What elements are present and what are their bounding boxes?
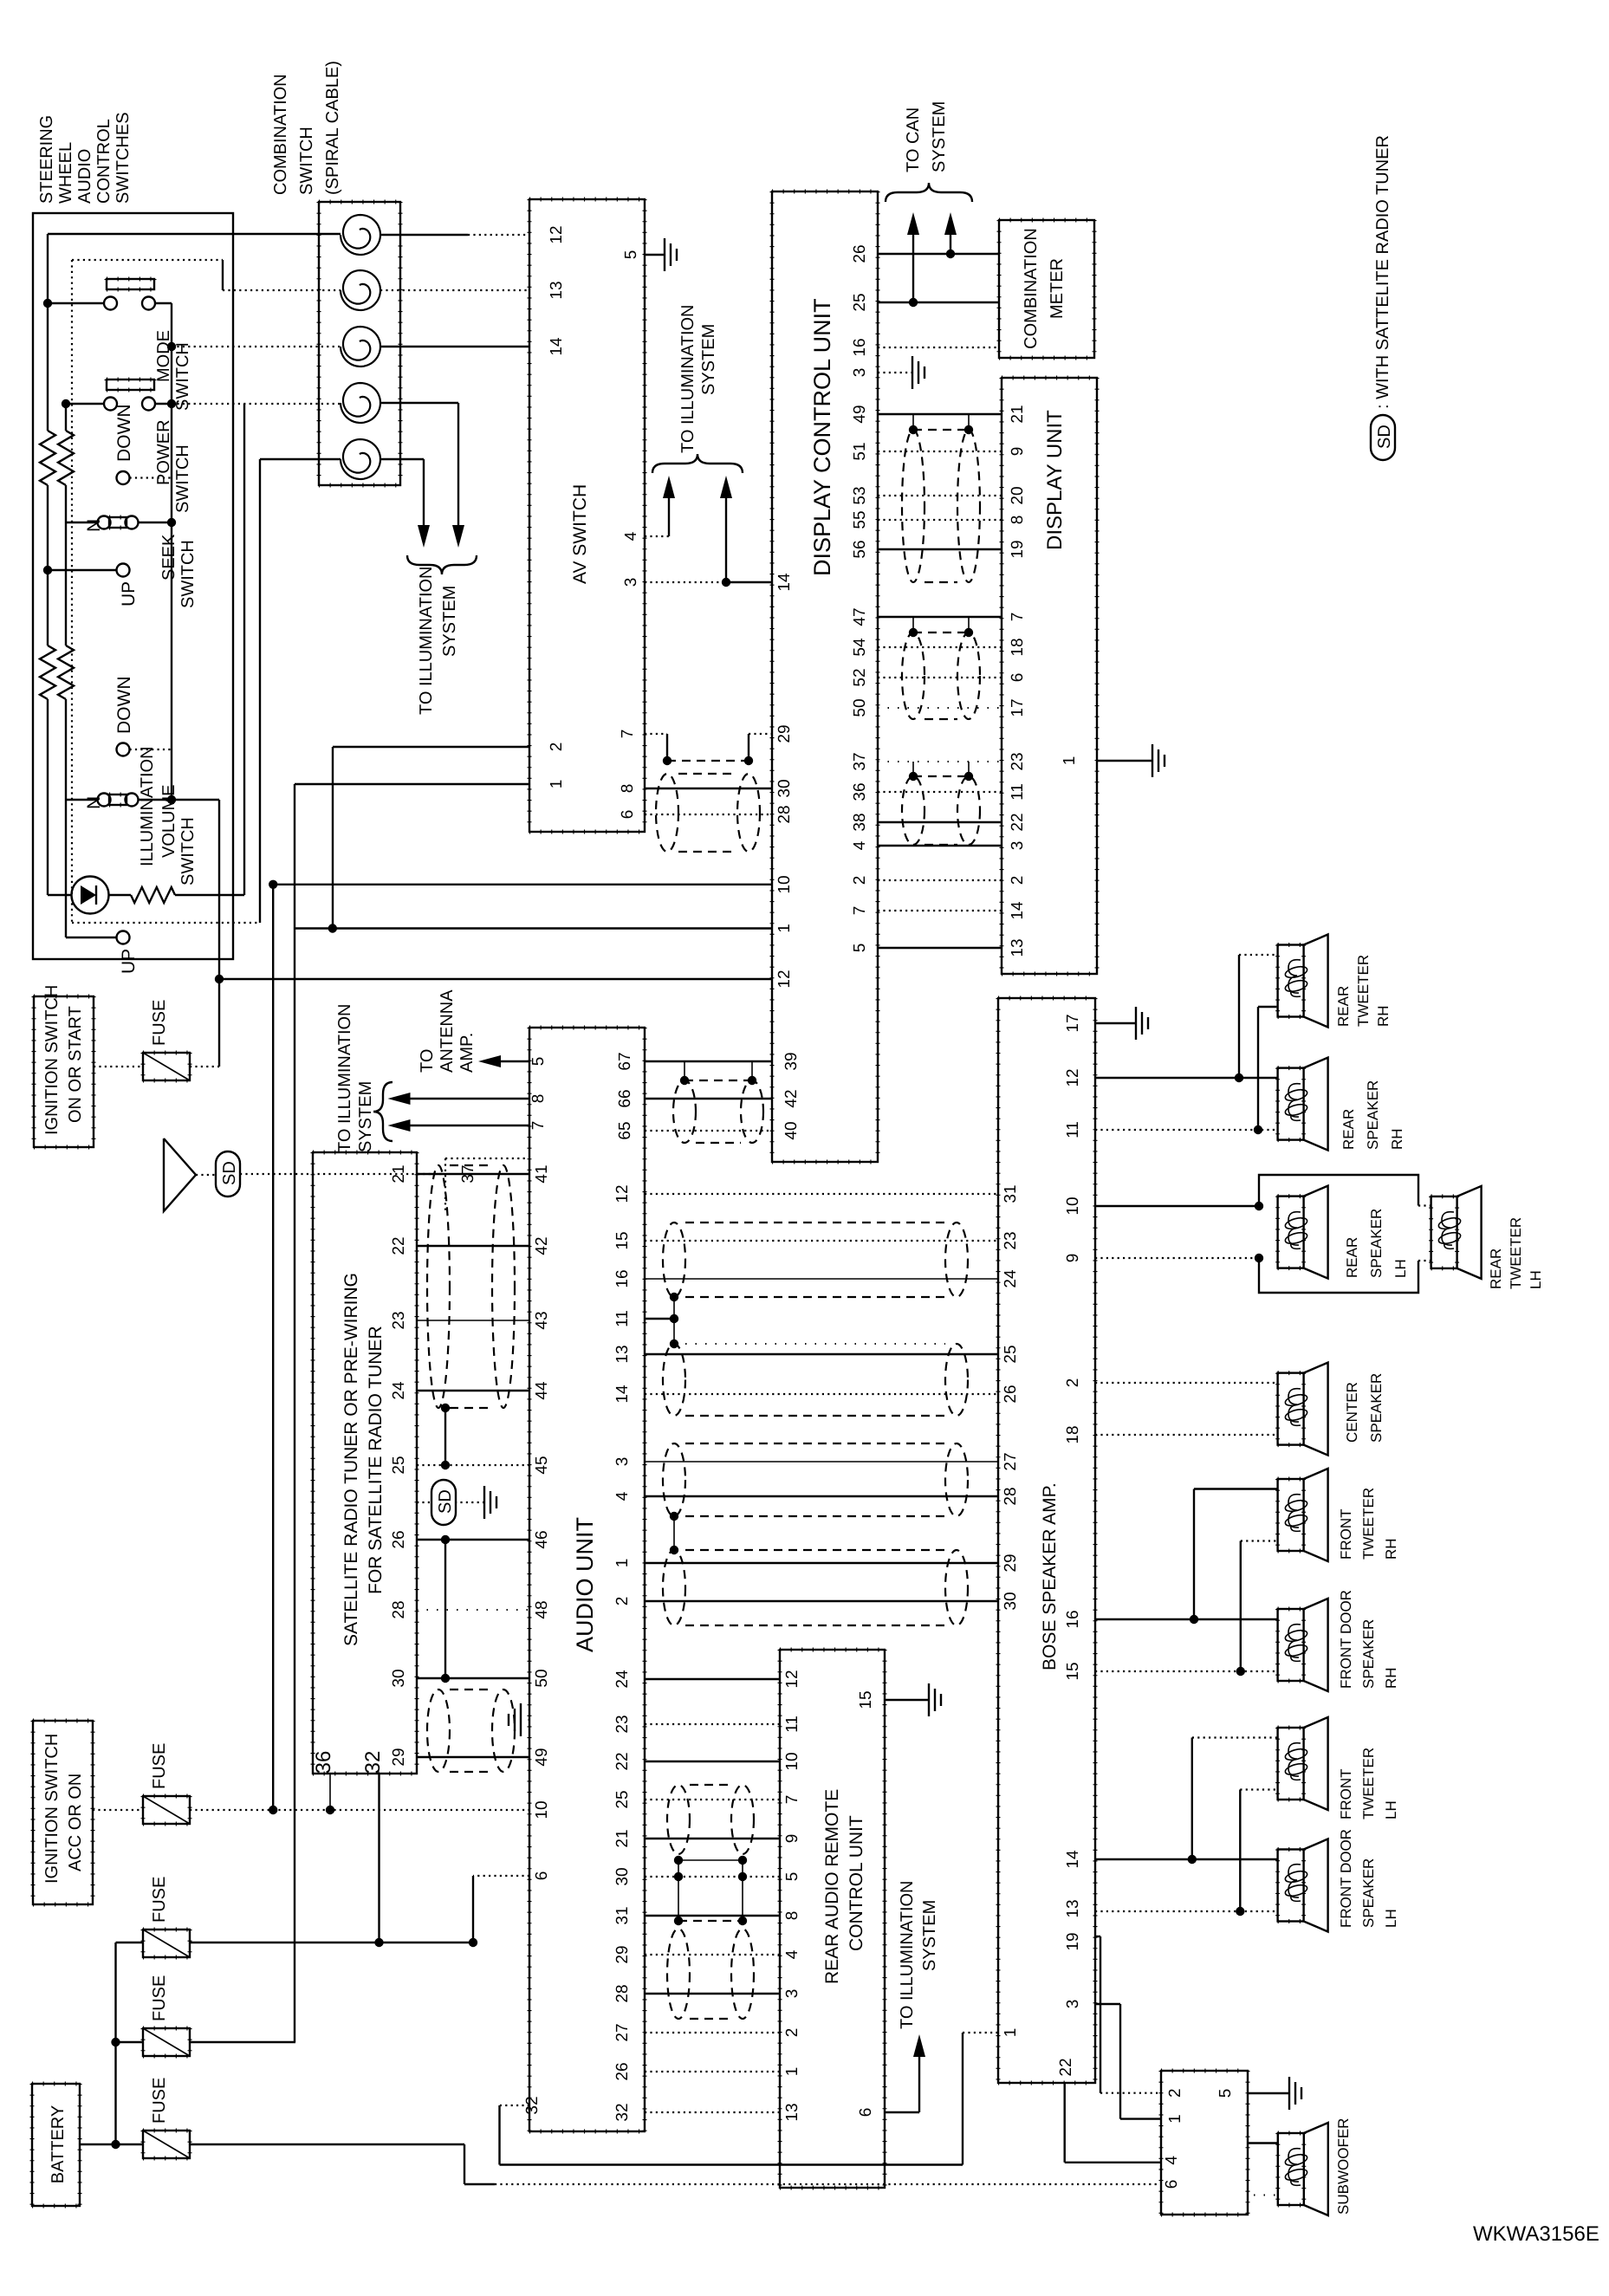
svg-text:15: 15: [857, 1690, 875, 1709]
svg-text:SPEAKER: SPEAKER: [1368, 1373, 1385, 1443]
svg-text:FUSE: FUSE: [150, 1000, 169, 1046]
svg-text:2: 2: [548, 743, 566, 752]
svg-text:SPEAKER: SPEAKER: [1365, 1080, 1381, 1150]
svg-text:6: 6: [533, 1871, 551, 1881]
svg-text:51: 51: [851, 442, 869, 460]
svg-text:4: 4: [851, 840, 869, 850]
svg-text:VOLUME: VOLUME: [159, 785, 178, 858]
svg-text:2: 2: [1166, 2088, 1184, 2098]
svg-text:COMBINATION: COMBINATION: [271, 74, 290, 195]
svg-text:SPEAKER: SPEAKER: [1360, 1619, 1377, 1689]
svg-text:22: 22: [613, 1752, 632, 1770]
svg-text:AUDIO UNIT: AUDIO UNIT: [572, 1517, 598, 1652]
svg-text:21: 21: [1009, 405, 1027, 423]
svg-text:17: 17: [1009, 698, 1027, 717]
svg-text:46: 46: [533, 1530, 551, 1548]
svg-text:(SPIRAL CABLE): (SPIRAL CABLE): [323, 61, 342, 195]
svg-text:1: 1: [613, 1559, 632, 1568]
svg-text:29: 29: [1002, 1553, 1020, 1572]
svg-text:3: 3: [613, 1457, 632, 1467]
svg-text:2: 2: [1064, 1378, 1082, 1388]
svg-text:32: 32: [613, 2103, 632, 2121]
svg-text:45: 45: [533, 1456, 551, 1474]
svg-text:1: 1: [1166, 2114, 1184, 2124]
svg-text:15: 15: [613, 1231, 632, 1249]
svg-text:17: 17: [1064, 1014, 1082, 1032]
svg-text:23: 23: [1009, 752, 1027, 770]
svg-text:2: 2: [851, 876, 869, 885]
svg-text:SWITCH: SWITCH: [173, 444, 192, 513]
svg-text:3: 3: [1064, 2000, 1082, 2009]
svg-text:1: 1: [783, 2067, 801, 2077]
svg-text:9: 9: [783, 1834, 801, 1844]
svg-text:22: 22: [390, 1236, 408, 1255]
svg-text:TO ILLUMINATION: TO ILLUMINATION: [678, 304, 697, 453]
svg-text:42: 42: [782, 1089, 801, 1107]
svg-text:SPEAKER: SPEAKER: [1360, 1858, 1377, 1928]
svg-text:39: 39: [782, 1052, 801, 1070]
svg-text:FRONT: FRONT: [1338, 1508, 1354, 1560]
svg-text:42: 42: [533, 1236, 551, 1255]
svg-text:48: 48: [533, 1600, 551, 1618]
svg-text:BATTERY: BATTERY: [49, 2105, 68, 2183]
svg-text:10: 10: [1064, 1197, 1082, 1215]
svg-text:23: 23: [1002, 1231, 1020, 1249]
svg-text:TWEETER: TWEETER: [1355, 955, 1372, 1027]
svg-text:RH: RH: [1383, 1667, 1399, 1689]
svg-text:18: 18: [1009, 638, 1027, 656]
svg-text:SYSTEM: SYSTEM: [440, 586, 459, 657]
svg-text:5: 5: [529, 1057, 548, 1067]
svg-text:5: 5: [622, 250, 640, 260]
svg-text:16: 16: [613, 1269, 632, 1287]
svg-text:40: 40: [782, 1121, 801, 1139]
svg-text:12: 12: [548, 225, 566, 243]
svg-text:44: 44: [533, 1381, 551, 1400]
svg-text:METER: METER: [1048, 258, 1067, 319]
svg-text:22: 22: [1009, 813, 1027, 831]
svg-text:11: 11: [1064, 1121, 1082, 1138]
svg-text:3: 3: [1009, 841, 1027, 851]
svg-text:SWITCH: SWITCH: [178, 817, 198, 885]
svg-text:DISPLAY UNIT: DISPLAY UNIT: [1043, 410, 1067, 550]
svg-text:30: 30: [390, 1669, 408, 1687]
svg-text:27: 27: [613, 2023, 632, 2041]
svg-text:7: 7: [529, 1121, 548, 1131]
svg-text:7: 7: [619, 730, 637, 739]
svg-text:SYSTEM: SYSTEM: [930, 101, 949, 172]
svg-text:: WITH SATTELITE RADIO TUNER: : WITH SATTELITE RADIO TUNER: [1373, 135, 1392, 409]
svg-text:8: 8: [783, 1911, 801, 1921]
svg-text:56: 56: [851, 540, 869, 558]
svg-text:54: 54: [851, 638, 869, 657]
svg-text:ON OR START: ON OR START: [66, 1006, 85, 1123]
svg-text:31: 31: [1002, 1184, 1020, 1203]
svg-text:3: 3: [851, 368, 869, 378]
svg-text:SYSTEM: SYSTEM: [920, 1900, 939, 1971]
svg-text:11: 11: [783, 1716, 801, 1733]
svg-text:UP: UP: [119, 581, 139, 606]
svg-text:3: 3: [783, 1989, 801, 1999]
svg-text:SYSTEM: SYSTEM: [356, 1081, 375, 1152]
svg-text:26: 26: [851, 244, 869, 263]
svg-text:RH: RH: [1375, 1005, 1392, 1027]
svg-text:FRONT: FRONT: [1338, 1768, 1354, 1819]
svg-text:10: 10: [533, 1800, 551, 1819]
svg-text:5: 5: [1216, 2089, 1235, 2098]
svg-text:SWITCH: SWITCH: [178, 540, 198, 608]
svg-text:BOSE SPEAKER AMP.: BOSE SPEAKER AMP.: [1040, 1482, 1060, 1670]
svg-text:12: 12: [775, 970, 794, 988]
svg-text:52: 52: [851, 668, 869, 686]
svg-text:UP: UP: [119, 949, 139, 974]
svg-text:IGNITION SWITCH: IGNITION SWITCH: [42, 1734, 62, 1884]
svg-text:10: 10: [775, 875, 794, 893]
svg-text:41: 41: [533, 1164, 551, 1183]
svg-text:FOR SATELLITE RADIO TUNER: FOR SATELLITE RADIO TUNER: [366, 1326, 386, 1594]
svg-text:4: 4: [1163, 2156, 1181, 2165]
svg-text:SPEAKER: SPEAKER: [1368, 1209, 1385, 1278]
svg-text:2: 2: [613, 1597, 632, 1606]
svg-text:TO: TO: [418, 1049, 437, 1073]
svg-text:9: 9: [1064, 1254, 1082, 1263]
svg-text:SD: SD: [220, 1161, 239, 1185]
svg-text:24: 24: [1002, 1269, 1020, 1288]
svg-text:21: 21: [613, 1829, 632, 1847]
svg-text:24: 24: [390, 1381, 408, 1400]
svg-text:6: 6: [857, 2108, 875, 2118]
svg-text:28: 28: [613, 1984, 632, 2002]
svg-text:N: N: [84, 796, 104, 809]
svg-text:14: 14: [613, 1385, 632, 1404]
svg-text:8: 8: [1009, 516, 1027, 525]
svg-text:SD: SD: [436, 1489, 455, 1514]
svg-text:TO CAN: TO CAN: [904, 107, 923, 172]
svg-text:29: 29: [775, 724, 794, 743]
svg-text:1: 1: [548, 780, 566, 789]
svg-text:4: 4: [622, 531, 640, 541]
svg-text:STEERING: STEERING: [37, 115, 56, 204]
svg-text:4: 4: [613, 1491, 632, 1501]
svg-text:8: 8: [529, 1094, 548, 1104]
svg-text:53: 53: [851, 486, 869, 504]
svg-text:1: 1: [1061, 756, 1079, 766]
svg-text:TO ILLUMINATION: TO ILLUMINATION: [898, 1880, 917, 2029]
svg-text:WHEEL: WHEEL: [56, 142, 75, 204]
svg-text:25: 25: [1002, 1345, 1020, 1363]
svg-text:13: 13: [783, 2103, 801, 2121]
svg-text:23: 23: [390, 1311, 408, 1329]
svg-text:28: 28: [775, 805, 794, 823]
svg-text:5: 5: [783, 1872, 801, 1882]
svg-text:47: 47: [851, 607, 869, 626]
svg-text:WKWA3156E: WKWA3156E: [1473, 2222, 1599, 2246]
svg-text:FRONT DOOR: FRONT DOOR: [1338, 1829, 1354, 1928]
svg-text:36: 36: [851, 782, 869, 801]
svg-text:FRONT DOOR: FRONT DOOR: [1338, 1590, 1354, 1689]
svg-text:11: 11: [613, 1310, 632, 1327]
svg-text:28: 28: [1002, 1487, 1020, 1505]
svg-text:1: 1: [1002, 2028, 1020, 2038]
svg-text:21: 21: [390, 1164, 408, 1183]
svg-text:29: 29: [390, 1748, 408, 1766]
svg-text:14: 14: [1064, 1850, 1082, 1869]
svg-text:20: 20: [1009, 486, 1027, 504]
svg-text:AUDIO: AUDIO: [75, 149, 94, 204]
svg-text:29: 29: [613, 1945, 632, 1963]
svg-text:65: 65: [616, 1121, 634, 1139]
svg-text:LH: LH: [1383, 1800, 1399, 1819]
svg-text:50: 50: [851, 698, 869, 717]
svg-text:38: 38: [851, 813, 869, 831]
svg-text:66: 66: [616, 1089, 634, 1107]
svg-text:16: 16: [851, 338, 869, 356]
svg-text:26: 26: [390, 1530, 408, 1548]
svg-text:6: 6: [1163, 2180, 1181, 2189]
svg-text:13: 13: [1064, 1899, 1082, 1917]
svg-text:SD: SD: [1375, 425, 1394, 449]
svg-text:18: 18: [1064, 1425, 1082, 1443]
svg-text:12: 12: [783, 1670, 801, 1688]
svg-text:12: 12: [613, 1184, 632, 1203]
svg-text:23: 23: [613, 1715, 632, 1733]
svg-text:FUSE: FUSE: [150, 1743, 169, 1789]
svg-text:30: 30: [613, 1867, 632, 1885]
svg-text:2: 2: [1009, 876, 1027, 885]
svg-text:13: 13: [548, 281, 566, 299]
svg-text:14: 14: [1009, 901, 1027, 920]
svg-text:7: 7: [1009, 613, 1027, 622]
svg-text:25: 25: [851, 293, 869, 311]
svg-text:11: 11: [1009, 783, 1027, 801]
svg-text:TWEETER: TWEETER: [1360, 1748, 1377, 1819]
svg-text:LH: LH: [1383, 1909, 1399, 1928]
svg-text:1: 1: [775, 924, 794, 933]
svg-text:16: 16: [1064, 1610, 1082, 1628]
svg-text:TO ILLUMINATION: TO ILLUMINATION: [417, 566, 436, 715]
svg-text:REAR: REAR: [1344, 1237, 1360, 1278]
svg-text:REAR: REAR: [1335, 986, 1352, 1027]
svg-text:AV SWITCH: AV SWITCH: [570, 484, 590, 584]
svg-text:36: 36: [312, 1751, 335, 1774]
svg-text:28: 28: [390, 1600, 408, 1618]
svg-text:10: 10: [783, 1752, 801, 1770]
svg-text:14: 14: [775, 573, 794, 592]
svg-text:30: 30: [1002, 1592, 1020, 1610]
svg-text:13: 13: [613, 1345, 632, 1363]
svg-text:19: 19: [1009, 540, 1027, 558]
svg-text:27: 27: [1002, 1452, 1020, 1470]
svg-text:SEEK: SEEK: [159, 534, 178, 580]
svg-text:POWER: POWER: [154, 419, 173, 485]
svg-text:25: 25: [390, 1456, 408, 1474]
svg-text:25: 25: [613, 1790, 632, 1808]
svg-text:49: 49: [851, 405, 869, 423]
svg-text:REAR: REAR: [1488, 1249, 1504, 1289]
svg-text:13: 13: [1009, 938, 1027, 957]
svg-text:50: 50: [533, 1669, 551, 1687]
svg-text:ANTENNA: ANTENNA: [438, 989, 457, 1073]
svg-text:26: 26: [613, 2062, 632, 2080]
svg-text:ACC OR ON: ACC OR ON: [66, 1774, 85, 1871]
svg-text:TO ILLUMINATION: TO ILLUMINATION: [335, 1003, 354, 1152]
svg-text:SUBWOOFER: SUBWOOFER: [1335, 2118, 1352, 2215]
svg-text:DOWN: DOWN: [114, 405, 134, 463]
svg-text:22: 22: [1057, 2058, 1075, 2076]
svg-text:IGNITION SWITCH: IGNITION SWITCH: [42, 985, 62, 1135]
svg-text:32: 32: [523, 2096, 542, 2114]
svg-text:DISPLAY CONTROL UNIT: DISPLAY CONTROL UNIT: [809, 298, 835, 576]
svg-text:CENTER: CENTER: [1344, 1382, 1360, 1443]
svg-text:4: 4: [783, 1949, 801, 1959]
svg-text:LH: LH: [1392, 1259, 1409, 1278]
svg-text:LH: LH: [1528, 1270, 1544, 1289]
svg-text:8: 8: [619, 784, 637, 794]
svg-text:7: 7: [783, 1795, 801, 1805]
svg-text:SWITCH: SWITCH: [297, 126, 316, 195]
svg-text:37: 37: [851, 752, 869, 770]
svg-text:3: 3: [622, 578, 640, 587]
svg-text:TWEETER: TWEETER: [1508, 1217, 1524, 1289]
svg-text:12: 12: [1064, 1068, 1082, 1086]
svg-text:15: 15: [1064, 1662, 1082, 1680]
svg-text:SWITCHES: SWITCHES: [114, 112, 133, 204]
svg-text:55: 55: [851, 510, 869, 529]
svg-text:32: 32: [361, 1751, 385, 1774]
svg-text:7: 7: [851, 906, 869, 916]
svg-text:REAR AUDIO REMOTE: REAR AUDIO REMOTE: [822, 1789, 842, 1984]
svg-text:FUSE: FUSE: [150, 1975, 169, 2021]
svg-text:SYSTEM: SYSTEM: [699, 324, 718, 395]
svg-text:RH: RH: [1383, 1538, 1399, 1560]
svg-text:30: 30: [775, 779, 794, 797]
svg-text:CONTROL UNIT: CONTROL UNIT: [847, 1815, 866, 1951]
svg-text:MODE: MODE: [154, 330, 173, 382]
svg-text:SATELLITE RADIO TUNER OR PRE-W: SATELLITE RADIO TUNER OR PRE-WIRING: [341, 1273, 361, 1646]
svg-text:31: 31: [613, 1906, 632, 1924]
svg-text:9: 9: [1009, 447, 1027, 457]
svg-text:19: 19: [1064, 1932, 1082, 1950]
svg-text:RH: RH: [1389, 1128, 1405, 1150]
svg-text:67: 67: [616, 1052, 634, 1070]
svg-text:FUSE: FUSE: [150, 2078, 169, 2124]
svg-text:COMBINATION: COMBINATION: [1022, 228, 1041, 349]
svg-text:14: 14: [548, 337, 566, 356]
svg-text:CONTROL: CONTROL: [94, 119, 114, 204]
svg-text:AMP.: AMP.: [457, 1033, 477, 1073]
svg-text:ILLUMINATION: ILLUMINATION: [138, 746, 157, 866]
svg-text:43: 43: [533, 1311, 551, 1329]
svg-text:49: 49: [533, 1748, 551, 1766]
svg-text:26: 26: [1002, 1385, 1020, 1403]
svg-text:SWITCH: SWITCH: [173, 342, 192, 411]
svg-text:TWEETER: TWEETER: [1360, 1488, 1377, 1560]
svg-text:2: 2: [783, 2028, 801, 2038]
svg-text:5: 5: [851, 944, 869, 953]
svg-text:REAR: REAR: [1340, 1109, 1357, 1150]
svg-text:6: 6: [619, 810, 637, 820]
svg-text:FUSE: FUSE: [150, 1877, 169, 1923]
svg-text:6: 6: [1009, 673, 1027, 683]
svg-text:24: 24: [613, 1670, 632, 1689]
svg-text:N: N: [84, 519, 104, 532]
svg-text:DOWN: DOWN: [114, 677, 134, 735]
